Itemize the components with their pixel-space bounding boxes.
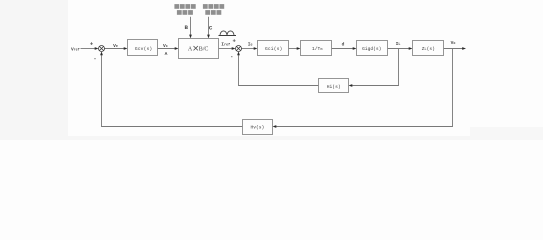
svg-text:-: -	[230, 54, 233, 60]
arrow into Gcv	[124, 47, 128, 50]
wire Hi out to summer 2 bottom	[239, 55, 319, 86]
arrow B into multiplier top	[189, 35, 192, 39]
summing junction 2	[236, 46, 242, 52]
svg-text:A: A	[165, 51, 168, 57]
wire summer 2 to Gci	[241, 48, 255, 50]
svg-text:d: d	[342, 42, 345, 48]
block Hi(s) current sensor	[319, 79, 349, 93]
wire ZL to output Vo	[444, 48, 464, 50]
svg-text:B/C: B/C	[199, 47, 209, 53]
wire Gcv to multiplier	[158, 48, 176, 50]
wire multiplier to summer 2	[219, 48, 233, 50]
arrow into ZL	[409, 47, 413, 50]
arrow into 1/Tm	[297, 47, 301, 50]
block 1/Tm PWM gain	[301, 41, 332, 56]
block ZL(s) load impedance	[413, 41, 444, 56]
wire Hv out to summer 1 bottom	[102, 55, 243, 127]
svg-text:B: B	[185, 24, 189, 31]
wire Gigd to ZL with node IL	[388, 48, 410, 50]
wire IL tap down to inner feedback	[351, 49, 398, 86]
arrow output Vo	[462, 47, 466, 50]
arrow up into summer 1 bottom	[100, 51, 103, 55]
arrow into summer 2	[232, 47, 236, 50]
svg-text:A: A	[188, 47, 193, 53]
arrow up into summer 2 bottom	[237, 51, 240, 55]
summing junction 1	[99, 46, 105, 52]
block Gcv(s) voltage compensator	[128, 40, 158, 56]
block A×B/C multiplier	[179, 39, 219, 59]
wire input B arrow down	[190, 17, 192, 36]
wire Vo tap down to outer feedback	[275, 49, 452, 127]
wire 1/Tm to Gigd, label d	[332, 48, 355, 50]
svg-text:-: -	[93, 56, 96, 62]
arrow into Gigd	[353, 47, 357, 50]
svg-text:Hv(s): Hv(s)	[251, 125, 265, 131]
arrow C into multiplier top	[207, 35, 210, 39]
arrow into Gci	[254, 47, 258, 50]
arrow into Hi right side	[349, 84, 353, 87]
wire input C arrow down	[208, 17, 210, 36]
waveform icon rectified sine	[219, 31, 237, 36]
svg-text:ZL(s): ZL(s)	[422, 46, 435, 52]
block Hv(s) voltage sensor	[243, 120, 273, 135]
block Gigd(s) duty-to-current	[357, 41, 388, 56]
svg-text:Gci(s): Gci(s)	[265, 46, 282, 52]
label input voltage rms value (Chinese)	[203, 4, 224, 15]
svg-text:Gcv(s): Gcv(s)	[135, 46, 152, 52]
svg-text:Gigd(s): Gigd(s)	[362, 46, 381, 52]
wire Vref to summer 1	[81, 48, 97, 50]
wire Gci to 1/Tm	[289, 48, 299, 50]
arrow into multiplier left	[175, 47, 179, 50]
wire summer 1 to Gcv	[105, 48, 125, 50]
svg-text:Hi(s): Hi(s)	[327, 84, 341, 90]
block Gci(s) current compensator	[258, 41, 289, 56]
arrowheads	[95, 35, 466, 128]
label input voltage sampled value (Chinese)	[174, 4, 195, 15]
arrow into summer 1	[95, 47, 99, 50]
arrow into Hv right side	[273, 125, 277, 128]
svg-text:C: C	[209, 25, 213, 32]
